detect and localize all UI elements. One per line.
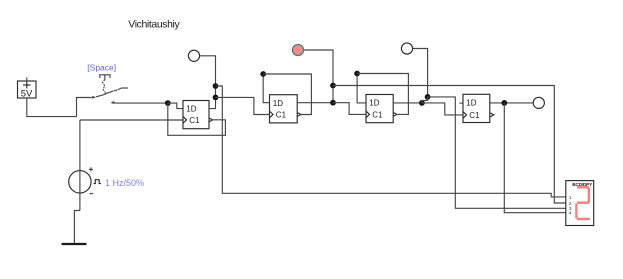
svg-text:2: 2	[569, 201, 572, 206]
svg-text:1D: 1D	[466, 98, 476, 107]
svg-text:Vichitaushiy: Vichitaushiy	[128, 19, 180, 31]
svg-text:[Space]: [Space]	[87, 63, 116, 73]
wire battery to switch	[27, 98, 92, 117]
wire node D3 to U4 C1	[422, 103, 463, 115]
wire U4 Q to node E4	[490, 102, 533, 104]
svg-text:C1: C1	[469, 111, 480, 120]
junction D3b	[419, 100, 425, 106]
D flip-flop U2	[270, 95, 301, 123]
wire U2 D from node C2	[263, 74, 269, 103]
wire switch to node A1	[113, 102, 168, 104]
wire clock to FF1 C1	[80, 119, 183, 121]
D flip-flop U4	[463, 94, 494, 122]
svg-text:C1: C1	[189, 116, 200, 125]
wire node D3 to display pin3	[428, 97, 566, 208]
junction B1a	[213, 83, 219, 89]
junction C3	[354, 71, 360, 77]
probe X1	[188, 50, 199, 61]
junction A1	[165, 100, 171, 106]
svg-text:C1: C1	[372, 110, 383, 119]
display U5 BCD/DPY	[566, 181, 594, 226]
seven segment digit 2	[576, 187, 590, 219]
svg-text:5V: 5V	[21, 89, 33, 100]
wire jog D3a to D3b	[422, 97, 428, 103]
svg-text:1D: 1D	[369, 99, 379, 108]
wire U2 Q to node B2	[297, 102, 333, 104]
junction B2b	[330, 100, 336, 106]
wire probe X2 to node B2	[304, 50, 333, 103]
switch lower contact hook	[112, 102, 115, 104]
junction D3a	[425, 94, 431, 100]
svg-text:4: 4	[569, 211, 572, 216]
ground	[62, 243, 87, 245]
battery V1 5V	[18, 78, 37, 101]
junction B1b	[213, 95, 219, 101]
svg-text:1: 1	[569, 195, 572, 200]
junction B2a	[330, 83, 336, 89]
junction C2	[260, 71, 266, 77]
wire clock to ground	[74, 211, 80, 244]
probe X2 red	[292, 44, 303, 55]
svg-text:1D: 1D	[273, 99, 283, 108]
wire node A1 to FF1 D input	[168, 103, 183, 109]
wire U3 Qbar feedback loop	[357, 74, 408, 115]
probe X3	[401, 43, 412, 54]
junction E4	[501, 100, 507, 106]
D flip-flop U3	[366, 95, 397, 123]
wire probe X1 to node B1	[200, 56, 216, 98]
wire U2 Qbar feedback loop	[263, 74, 311, 115]
wire probe X3 to node D3	[413, 49, 428, 97]
switch S1 [Space]	[87, 63, 128, 99]
wire node B2 to U3 C1	[333, 103, 366, 115]
wire U3 Q to node D3	[393, 102, 422, 104]
wire node B1 to display pin1	[216, 86, 566, 197]
svg-text:1 Hz/50%: 1 Hz/50%	[105, 178, 144, 188]
svg-text:1D: 1D	[186, 105, 196, 114]
wire U1 Qbar feedback loop	[168, 103, 226, 135]
wire node E4 to display pin4	[504, 103, 566, 213]
wire node B1 to U2 C1	[216, 97, 270, 114]
wire node B2 bus to display pin2	[333, 86, 566, 204]
wire U1 Q up to node B1	[209, 97, 216, 108]
clock source V2 1 Hz/50%	[69, 120, 144, 211]
svg-text:C1: C1	[276, 111, 287, 120]
wire U3 D from node C3	[357, 74, 366, 103]
D flip-flop U1	[183, 101, 213, 129]
wire U4 D stub	[459, 102, 463, 104]
probe X4	[533, 97, 544, 108]
